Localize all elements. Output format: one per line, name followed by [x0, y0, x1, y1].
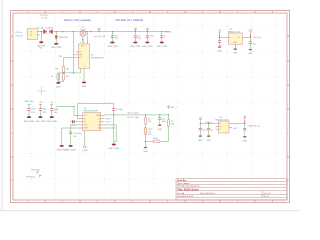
- wire L1 into U1 pin: [82, 36, 84, 44]
- label U1: [91, 55, 105, 60]
- svg-text:PWM: PWM: [84, 128, 89, 130]
- ground at PWM return: [60, 145, 64, 147]
- wire R7 down and left: [160, 126, 168, 141]
- svg-text:10k: 10k: [66, 69, 69, 71]
- window canvas edge left: [1, 0, 3, 211]
- ground below TH1: [144, 147, 148, 149]
- text note TP: [40, 15, 49, 20]
- grid origin cross: [37, 87, 45, 95]
- svg-text:GND_PWR: GND_PWR: [37, 45, 46, 47]
- wire +5V to U4: [200, 121, 215, 123]
- svg-text:PWM_5V_out: PWM_5V_out: [248, 124, 261, 127]
- driver IC U2: [79, 113, 104, 133]
- svg-text:1k: 1k: [51, 76, 53, 78]
- wire U2 pin W right and down: [104, 125, 116, 142]
- wire U2 OUT to network: [104, 114, 168, 116]
- wire U3 output: [246, 36, 251, 38]
- svg-text:1: 1: [80, 42, 81, 44]
- svg-text:F1_2A: F1_2A: [37, 26, 44, 29]
- capacitor C9 on FR pin: [70, 120, 79, 127]
- ground below cap: [38, 116, 42, 118]
- label L1: [80, 27, 86, 31]
- thermistor TH1: [144, 128, 147, 135]
- wire TVS to ground: [55, 39, 57, 43]
- capacitor C8 on bridge: [112, 109, 115, 111]
- wire +5V into U3: [219, 34, 221, 37]
- wire R2 to ground: [58, 73, 63, 82]
- junction at +5V flag: [98, 31, 99, 32]
- junction divider mid: [63, 72, 64, 73]
- svg-text:GND: GND: [206, 140, 211, 142]
- ground below cap: [50, 116, 54, 118]
- svg-text:1u: 1u: [164, 35, 166, 37]
- ground below J1: [39, 41, 43, 43]
- net labels U2 right pins: [106, 118, 112, 123]
- wire junction down to ground: [40, 32, 42, 41]
- ground below D2: [54, 43, 58, 45]
- svg-text:AMS1117-3.3: AMS1117-3.3: [228, 31, 241, 34]
- ground below C5: [160, 41, 164, 43]
- svg-text:V+: V+: [219, 126, 221, 128]
- svg-text:7: 7: [87, 42, 88, 44]
- junction CS to gnd line: [113, 127, 114, 128]
- power flag +5V pullup: [167, 105, 171, 109]
- label U3: [228, 29, 241, 33]
- svg-text:L 0.5A: L 0.5A: [41, 17, 48, 20]
- svg-text:Stack Bps: Stack Bps: [177, 179, 186, 182]
- ground below cap: [27, 116, 31, 118]
- ground below C15: [199, 135, 203, 137]
- ground below C12: [69, 145, 73, 147]
- svg-text:OUT_to_filter: OUT_to_filter: [127, 111, 139, 114]
- resistor R7: [167, 120, 170, 127]
- svg-text:+12V in: +12V in: [15, 32, 23, 34]
- ground below divider: [56, 82, 60, 84]
- svg-text:GND: GND: [56, 86, 61, 88]
- sheet border inner frame: [13, 13, 287, 200]
- ground below C16: [207, 135, 211, 137]
- svg-text:100n: 100n: [203, 130, 207, 132]
- frame column ticks bottom: [45, 200, 255, 203]
- window canvas edge bottom: [0, 210, 300, 212]
- svg-text:GND_PWR: GND_PWR: [47, 121, 58, 123]
- title block: [176, 179, 287, 200]
- capacitor C16: [207, 123, 213, 135]
- capacitor C15: [199, 124, 207, 136]
- resistor R3: [62, 74, 65, 81]
- svg-text:NTC: NTC: [148, 134, 153, 136]
- label U2: [84, 108, 99, 113]
- svg-text:100n: 100n: [149, 35, 153, 37]
- frame reference numbers: [11, 12, 290, 204]
- ground below U1: [82, 81, 86, 83]
- PWR_FLAG 1: [31, 168, 40, 174]
- svg-text:GND: GND: [143, 151, 148, 153]
- svg-text:10u: 10u: [115, 35, 118, 37]
- wire down to TVS D2: [55, 32, 57, 36]
- wire rail into U1 top: [86, 32, 88, 44]
- svg-text:10u: 10u: [137, 35, 140, 37]
- ground below U3: [234, 48, 238, 50]
- junction C8 line on signal wire: [113, 114, 114, 115]
- sheet border outer frame: [11, 11, 290, 203]
- svg-text:2k2: 2k2: [66, 76, 69, 78]
- svg-text:SN74LVC1G17: SN74LVC1G17: [215, 120, 230, 122]
- wire U4 output: [232, 123, 245, 125]
- wire U1 gnd pin down: [83, 69, 85, 82]
- capacitor C4: [146, 31, 154, 41]
- wire C8 down to gnd: [113, 111, 115, 144]
- grid dots pattern: [14, 14, 287, 199]
- wire into R6: [145, 115, 147, 118]
- resistor R2: [57, 74, 60, 81]
- svg-text:ADC_T: ADC_T: [171, 106, 178, 109]
- wire rail down left of U1: [73, 32, 76, 73]
- svg-text:Sheet: /power/: Sheet: /power/: [177, 182, 190, 185]
- capacitor C11: [158, 114, 166, 124]
- junction at J1 output: [41, 31, 42, 32]
- svg-text:KiCad E.D.A. 8.0.4: KiCad E.D.A. 8.0.4: [177, 195, 193, 198]
- svg-text:10k: 10k: [171, 124, 174, 126]
- svg-text:GND_PWR: GND_PWR: [109, 148, 120, 150]
- svg-text:100n: 100n: [43, 109, 47, 111]
- wire GND pin to ground: [71, 125, 80, 132]
- svg-text:Vbat to +5V regulator: Vbat to +5V regulator: [64, 18, 91, 22]
- junction U4 input: [200, 123, 201, 124]
- capacitor 1uF at x=51.8: [50, 104, 58, 116]
- capacitor 10uF at x=29.0: [27, 104, 36, 116]
- svg-text:GND_PWR: GND_PWR: [35, 121, 46, 123]
- wire R8 to tap: [146, 140, 154, 142]
- svg-text:8: 8: [84, 42, 85, 44]
- junction +5V feed: [73, 106, 74, 107]
- svg-text:PWR +5V: PWR +5V: [25, 101, 35, 103]
- PWR_FLAG 2: [26, 175, 41, 179]
- svg-text:GND_PWR: GND_PWR: [51, 47, 62, 49]
- svg-text:R8 1k: R8 1k: [153, 138, 158, 140]
- regulator U1: [76, 42, 90, 68]
- power flag +5V on rail: [97, 28, 101, 31]
- svg-text:GND_PWR: GND_PWR: [65, 149, 76, 151]
- capacitor C3: [134, 31, 142, 41]
- wire J1 to D1: [40, 31, 43, 33]
- svg-text:C8 100n: C8 100n: [116, 109, 123, 111]
- svg-text:22u: 22u: [253, 43, 256, 45]
- svg-text:GND: GND: [243, 140, 248, 142]
- svg-text:+5V filter (A = 100mA): +5V filter (A = 100mA): [115, 18, 143, 22]
- svg-text:MP1584EN-LF: MP1584EN-LF: [91, 57, 105, 59]
- svg-text:GND: GND: [233, 53, 238, 55]
- junction at sense tap: [145, 141, 146, 142]
- junction pullup top: [168, 114, 169, 115]
- junction left of L1: [73, 31, 74, 32]
- power flag above C3: [134, 28, 138, 31]
- svg-text:100n: 100n: [162, 121, 166, 123]
- svg-text:C11: C11: [162, 118, 165, 120]
- wire R6 to TH1: [145, 124, 147, 127]
- capacitor C13 at U3 input: [218, 37, 222, 47]
- svg-text:Date: 2024-10-14: Date: 2024-10-14: [200, 192, 215, 195]
- svg-text:RC 1k + 100n: RC 1k + 100n: [128, 117, 140, 119]
- ground below C3: [133, 41, 137, 43]
- svg-text:V_ADC: V_ADC: [82, 149, 89, 152]
- junction TVS tap: [56, 31, 57, 32]
- svg-text:1u: 1u: [211, 130, 213, 132]
- ground below C17: [243, 136, 247, 138]
- svg-text:Rev: 1.0: Rev: 1.0: [264, 193, 271, 195]
- junction extra: [90, 31, 91, 32]
- svg-text:GND: GND: [217, 50, 222, 52]
- svg-text:BST: BST: [81, 46, 84, 48]
- svg-text:C12 100n: C12 100n: [73, 133, 81, 135]
- capacitor C12: [69, 132, 72, 134]
- frame column ticks top: [45, 11, 255, 14]
- junction divider mid 2: [73, 72, 74, 73]
- wire TH1 to ground: [145, 134, 147, 146]
- ground below C14: [249, 49, 253, 51]
- wire +5V feed to U2: [56, 106, 79, 115]
- diode D2 zener: [55, 36, 58, 39]
- wire C12 to ground: [70, 134, 72, 145]
- svg-text:GND_PWR: GND_PWR: [157, 46, 168, 48]
- label U4: [215, 117, 230, 122]
- capacitor C14 at U3 output: [249, 37, 256, 48]
- svg-text:GND: GND: [198, 140, 203, 142]
- power flag +5V at U3 input: [218, 30, 222, 34]
- svg-text:+3V3_in: +3V3_in: [164, 32, 173, 34]
- svg-text:Size: A4: Size: A4: [177, 192, 184, 195]
- junction rail tap 1: [62, 31, 63, 32]
- wire U2 bottom pad down: [84, 132, 86, 146]
- wire FB pin to divider: [64, 58, 76, 67]
- junction U3 input: [219, 37, 220, 38]
- svg-text:GND_PWR: GND_PWR: [142, 46, 153, 48]
- svg-text:GND_PWR: GND_PWR: [24, 121, 35, 123]
- wire PWM pin to ground: [62, 128, 80, 145]
- svg-text:XT30-M: XT30-M: [16, 36, 23, 38]
- svg-text:DRV10970PWP: DRV10970PWP: [84, 111, 99, 113]
- svg-text:Id: 1/1: Id: 1/1: [264, 196, 269, 198]
- resistor R6: [144, 117, 147, 124]
- resistor R1: [62, 66, 65, 73]
- junction U4 output: [244, 123, 245, 124]
- svg-text:+3V3_rail: +3V3_rail: [253, 37, 262, 39]
- power flag +5V at U4 input: [198, 117, 202, 121]
- svg-text:GND: GND: [158, 129, 163, 131]
- junction right of L1: [87, 31, 88, 32]
- svg-text:PH_V: PH_V: [106, 122, 112, 124]
- svg-text:OUT: OUT: [96, 115, 100, 117]
- wire divider mid: [58, 72, 80, 74]
- svg-text:File: bldc_driver.kicad_sch: File: bldc_driver.kicad_sch: [177, 185, 199, 188]
- wire U3 gnd pin: [234, 46, 236, 48]
- svg-text:GND: GND: [248, 53, 253, 55]
- inductor L1: [80, 30, 86, 36]
- capacitor 100n at x=40.4: [39, 104, 47, 116]
- svg-text:SMBJ12A: SMBJ12A: [59, 36, 68, 39]
- svg-text:D1 SMBJ: D1 SMBJ: [45, 27, 53, 29]
- connector J1: [27, 29, 40, 40]
- diode D1 TVS pair: [43, 29, 52, 34]
- ground below C11: [158, 124, 162, 126]
- wire U2 pin CS right: [104, 127, 114, 129]
- svg-text:GND: GND: [82, 86, 87, 88]
- buffer U4: [216, 121, 233, 133]
- capacitor C17: [243, 124, 246, 136]
- ground below C13: [218, 46, 222, 48]
- junction NTC chain: [145, 114, 146, 115]
- svg-text:Title: BLDC Driver: Title: BLDC Driver: [177, 188, 199, 191]
- wire into R7: [168, 115, 170, 120]
- ground below C8: [112, 144, 116, 146]
- ground below C2: [111, 41, 115, 43]
- power flag +3V3: [248, 29, 254, 37]
- no-connect pad marker: [83, 146, 86, 148]
- junction U3 output: [250, 37, 251, 38]
- regulator U3: [226, 33, 246, 46]
- capacitor C2: [111, 31, 119, 41]
- power flag +5V at U4 output: [243, 116, 247, 124]
- svg-text:GND_PWR: GND_PWR: [130, 46, 141, 48]
- svg-text:10k: 10k: [148, 121, 151, 123]
- ground below C4: [145, 41, 149, 43]
- frame row ticks left and right: [11, 61, 290, 157]
- svg-text:GND_PWR: GND_PWR: [107, 46, 118, 48]
- power flag above C4: [146, 28, 150, 31]
- wire main +5V rail: [53, 31, 170, 33]
- capacitor C5: [160, 31, 166, 41]
- svg-text:rail_5V0_1A: rail_5V0_1A: [94, 35, 106, 38]
- wire bridge over U2: [78, 104, 114, 119]
- svg-text:PH_U: PH_U: [106, 118, 112, 120]
- svg-text:GND_PWR: GND_PWR: [57, 149, 68, 151]
- resistor R8: [153, 140, 160, 143]
- wire U1 sw pin down: [80, 69, 82, 73]
